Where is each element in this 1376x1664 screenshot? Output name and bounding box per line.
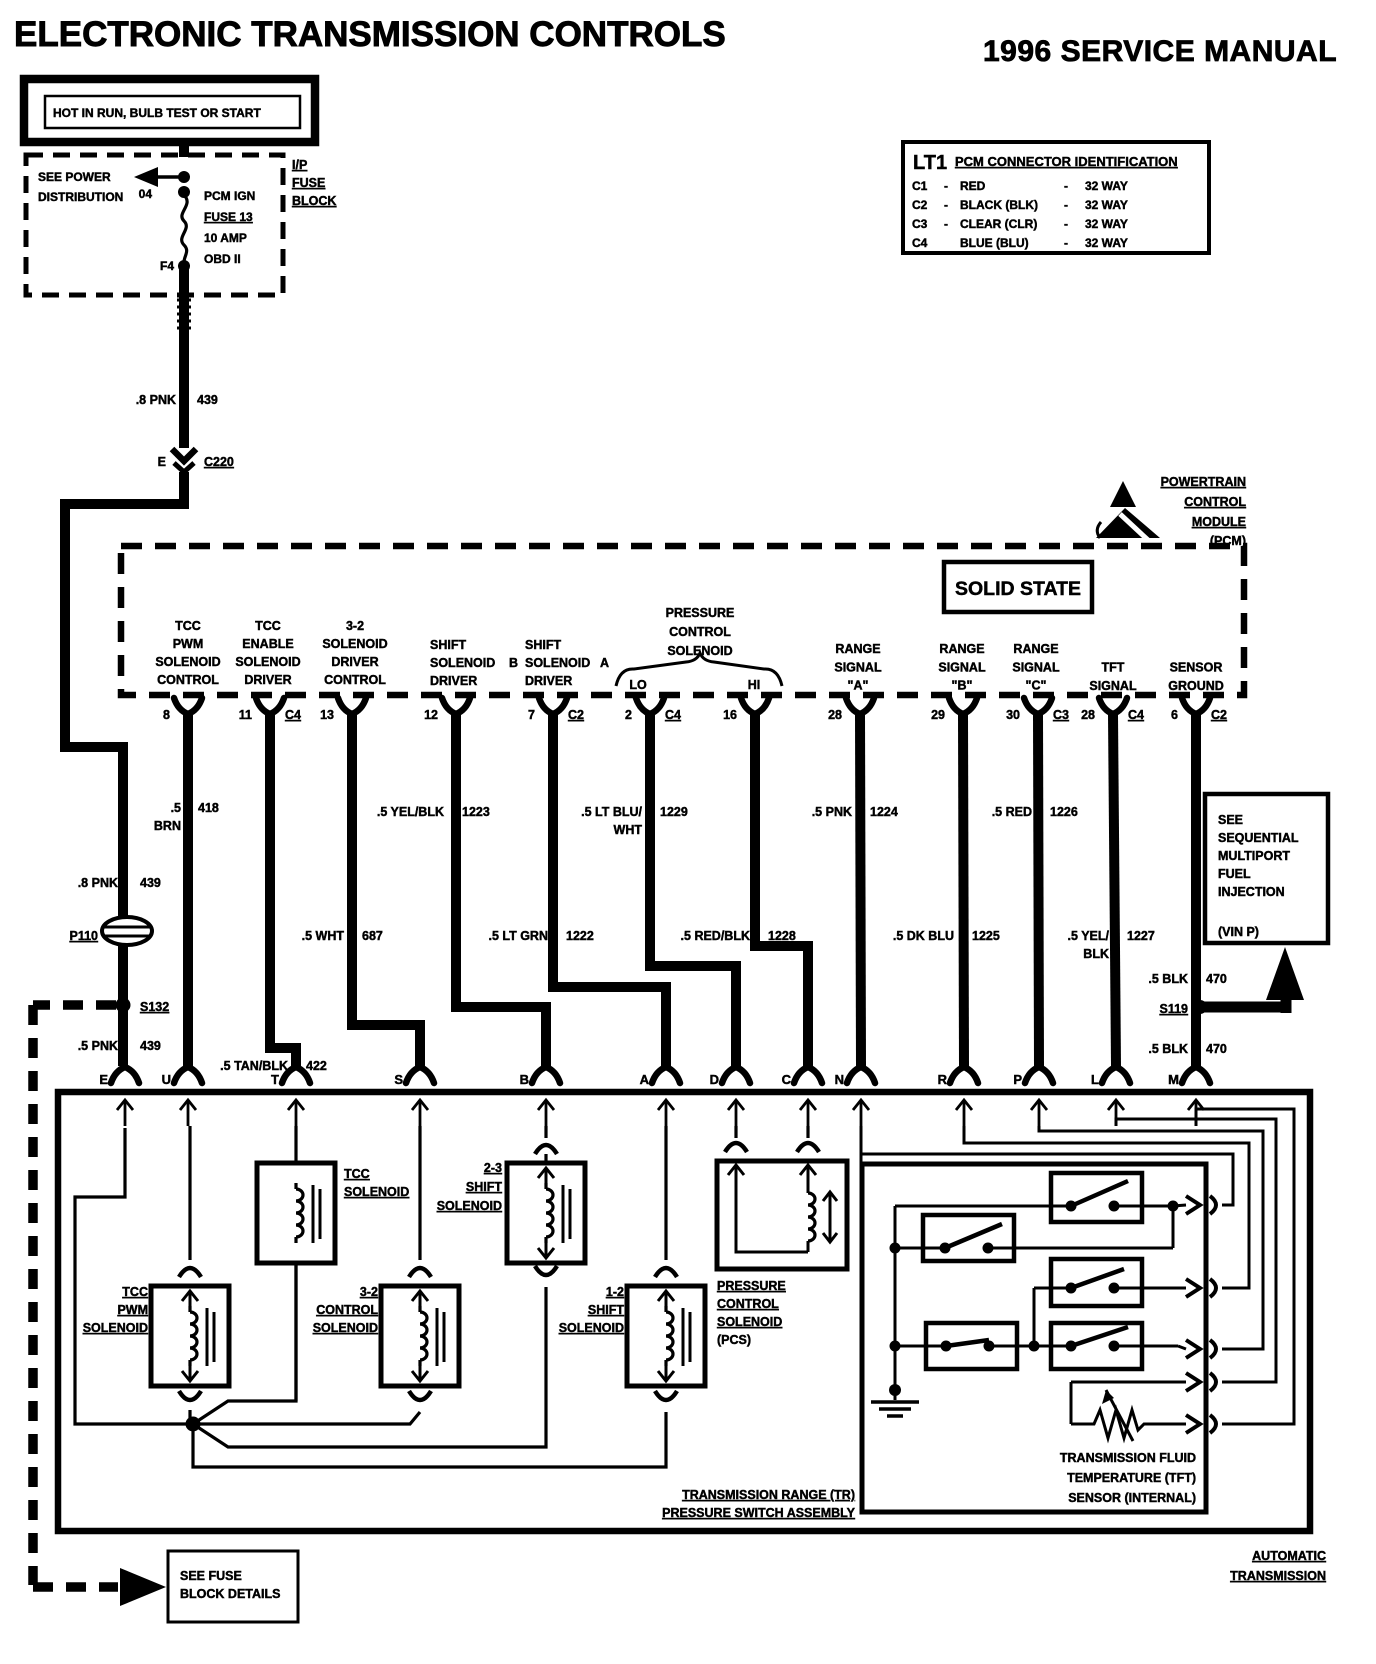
- svg-text:BRN: BRN: [154, 819, 181, 833]
- svg-text:.8 PNK: .8 PNK: [78, 876, 118, 890]
- svg-text:"A": "A": [848, 679, 869, 693]
- svg-text:1224: 1224: [870, 805, 898, 819]
- svg-text:.5 PNK: .5 PNK: [78, 1039, 118, 1053]
- svg-text:13: 13: [320, 708, 334, 722]
- svg-text:29: 29: [931, 708, 945, 722]
- svg-text:TCC: TCC: [344, 1167, 370, 1181]
- svg-text:C4: C4: [912, 236, 928, 250]
- svg-text:RANGE: RANGE: [1013, 642, 1058, 656]
- svg-text:FUSE 13: FUSE 13: [204, 210, 253, 224]
- svg-text:422: 422: [306, 1059, 327, 1073]
- svg-text:SOLENOID: SOLENOID: [155, 655, 220, 669]
- svg-text:439: 439: [140, 1039, 161, 1053]
- svg-text:SIGNAL: SIGNAL: [938, 660, 986, 674]
- svg-text:.5 RED: .5 RED: [992, 805, 1032, 819]
- svg-text:R: R: [938, 1072, 948, 1087]
- svg-text:RANGE: RANGE: [835, 642, 880, 656]
- svg-text:T: T: [271, 1072, 279, 1087]
- svg-text:.5: .5: [171, 801, 181, 815]
- svg-text:439: 439: [140, 876, 161, 890]
- svg-text:MODULE: MODULE: [1192, 515, 1246, 529]
- svg-text:.5 BLK: .5 BLK: [1148, 972, 1188, 986]
- svg-text:C2: C2: [568, 708, 584, 722]
- svg-text:TRANSMISSION: TRANSMISSION: [1230, 1569, 1326, 1583]
- svg-text:CONTROL: CONTROL: [157, 673, 219, 687]
- svg-text:SOLENOID: SOLENOID: [559, 1321, 624, 1335]
- svg-text:TCC: TCC: [122, 1285, 148, 1299]
- svg-text:SOLENOID: SOLENOID: [322, 637, 387, 651]
- svg-text:SHIFT: SHIFT: [430, 638, 466, 652]
- svg-text:32 WAY: 32 WAY: [1085, 217, 1128, 231]
- svg-text:-: -: [944, 198, 948, 212]
- svg-text:.8 PNK: .8 PNK: [136, 393, 176, 407]
- svg-text:RED: RED: [960, 179, 986, 193]
- svg-text:.5 RED/BLK: .5 RED/BLK: [681, 929, 750, 943]
- svg-text:1229: 1229: [660, 805, 688, 819]
- svg-text:"C": "C": [1026, 679, 1047, 693]
- svg-text:U: U: [162, 1072, 171, 1087]
- svg-text:S119: S119: [1159, 1002, 1188, 1016]
- svg-text:2: 2: [625, 708, 632, 722]
- svg-text:-: -: [1064, 198, 1068, 212]
- svg-text:BLK: BLK: [1083, 947, 1109, 961]
- svg-text:S: S: [394, 1072, 403, 1087]
- svg-text:SHIFT: SHIFT: [588, 1303, 624, 1317]
- svg-text:.5 WHT: .5 WHT: [302, 929, 345, 943]
- svg-text:F4: F4: [160, 259, 174, 273]
- svg-text:-: -: [1064, 179, 1068, 193]
- svg-text:DRIVER: DRIVER: [244, 673, 291, 687]
- svg-text:28: 28: [1081, 708, 1095, 722]
- svg-text:687: 687: [362, 929, 383, 943]
- svg-text:SOLENOID: SOLENOID: [525, 656, 590, 670]
- svg-text:SOLENOID: SOLENOID: [235, 655, 300, 669]
- svg-text:TEMPERATURE (TFT): TEMPERATURE (TFT): [1067, 1471, 1196, 1485]
- svg-text:PCM IGN: PCM IGN: [204, 189, 255, 203]
- svg-text:32 WAY: 32 WAY: [1085, 179, 1128, 193]
- svg-text:.5 PNK: .5 PNK: [812, 805, 852, 819]
- svg-text:1225: 1225: [972, 929, 1000, 943]
- svg-text:INJECTION: INJECTION: [1218, 885, 1285, 899]
- svg-text:418: 418: [198, 801, 219, 815]
- svg-text:.5 DK BLU: .5 DK BLU: [893, 929, 954, 943]
- svg-text:P: P: [1013, 1072, 1022, 1087]
- svg-text:OBD II: OBD II: [204, 252, 241, 266]
- svg-text:(PCM): (PCM): [1210, 534, 1246, 548]
- svg-text:SIGNAL: SIGNAL: [1012, 660, 1060, 674]
- svg-text:PCM CONNECTOR IDENTIFICATION: PCM CONNECTOR IDENTIFICATION: [955, 154, 1178, 169]
- svg-text:PRESSURE: PRESSURE: [666, 606, 735, 620]
- svg-text:.5 LT GRN: .5 LT GRN: [489, 929, 549, 943]
- svg-text:B: B: [509, 656, 518, 670]
- svg-text:FUSE: FUSE: [292, 176, 325, 190]
- svg-text:BLUE (BLU): BLUE (BLU): [960, 236, 1029, 250]
- svg-text:SOLENOID: SOLENOID: [717, 1315, 782, 1329]
- svg-text:2-3: 2-3: [484, 1161, 502, 1175]
- svg-text:04: 04: [139, 187, 153, 201]
- svg-text:BLACK (BLK): BLACK (BLK): [960, 198, 1038, 212]
- svg-text:C2: C2: [1211, 708, 1227, 722]
- svg-text:1996 SERVICE MANUAL: 1996 SERVICE MANUAL: [983, 35, 1337, 68]
- svg-text:SOLENOID: SOLENOID: [430, 656, 495, 670]
- svg-text:.5 YEL/: .5 YEL/: [1068, 929, 1110, 943]
- svg-text:12: 12: [424, 708, 438, 722]
- svg-text:-: -: [1064, 217, 1068, 231]
- svg-text:SEE: SEE: [1218, 813, 1243, 827]
- svg-text:CONTROL: CONTROL: [1184, 495, 1246, 509]
- svg-text:1227: 1227: [1127, 929, 1155, 943]
- svg-text:TCC: TCC: [175, 619, 201, 633]
- svg-text:S132: S132: [140, 1000, 169, 1014]
- svg-text:ENABLE: ENABLE: [242, 637, 293, 651]
- svg-text:D: D: [710, 1072, 719, 1087]
- svg-text:P110: P110: [69, 929, 98, 943]
- svg-text:(PCS): (PCS): [717, 1333, 751, 1347]
- svg-text:32 WAY: 32 WAY: [1085, 236, 1128, 250]
- svg-text:C4: C4: [1128, 708, 1144, 722]
- svg-text:AUTOMATIC: AUTOMATIC: [1252, 1549, 1326, 1563]
- svg-text:HOT IN RUN, BULB TEST OR START: HOT IN RUN, BULB TEST OR START: [53, 106, 261, 120]
- svg-text:B: B: [520, 1072, 529, 1087]
- svg-text:-: -: [944, 217, 948, 231]
- svg-text:SOLENOID: SOLENOID: [344, 1185, 409, 1199]
- svg-text:SOLID STATE: SOLID STATE: [955, 578, 1081, 600]
- svg-text:.5 TAN/BLK: .5 TAN/BLK: [220, 1059, 288, 1073]
- svg-text:FUEL: FUEL: [1218, 867, 1251, 881]
- svg-text:"B": "B": [952, 679, 973, 693]
- svg-text:CONTROL: CONTROL: [717, 1297, 779, 1311]
- svg-text:8: 8: [163, 708, 170, 722]
- svg-text:16: 16: [723, 708, 737, 722]
- svg-text:PWM: PWM: [117, 1303, 148, 1317]
- svg-text:CONTROL: CONTROL: [669, 625, 731, 639]
- svg-text:1-2: 1-2: [606, 1285, 624, 1299]
- svg-text:C2: C2: [912, 198, 928, 212]
- svg-text:SIGNAL: SIGNAL: [1089, 679, 1137, 693]
- svg-text:LT1: LT1: [913, 152, 947, 174]
- svg-text:C: C: [782, 1072, 792, 1087]
- svg-text:10 AMP: 10 AMP: [204, 231, 247, 245]
- svg-text:SIGNAL: SIGNAL: [834, 660, 882, 674]
- svg-text:MULTIPORT: MULTIPORT: [1218, 849, 1290, 863]
- svg-text:POWERTRAIN: POWERTRAIN: [1161, 475, 1246, 489]
- svg-text:SHIFT: SHIFT: [525, 638, 561, 652]
- svg-text:I/P: I/P: [292, 158, 307, 172]
- svg-text:LO: LO: [629, 678, 647, 692]
- svg-text:SEE FUSE: SEE FUSE: [180, 1569, 242, 1583]
- svg-text:C4: C4: [665, 708, 681, 722]
- svg-text:1222: 1222: [566, 929, 594, 943]
- svg-text:DISTRIBUTION: DISTRIBUTION: [38, 190, 123, 204]
- svg-text:SEQUENTIAL: SEQUENTIAL: [1218, 831, 1299, 845]
- svg-text:L: L: [1091, 1072, 1099, 1087]
- svg-text:32 WAY: 32 WAY: [1085, 198, 1128, 212]
- svg-text:DRIVER: DRIVER: [430, 674, 477, 688]
- svg-text:SOLENOID: SOLENOID: [313, 1321, 378, 1335]
- svg-text:.5 LT BLU/: .5 LT BLU/: [581, 805, 642, 819]
- svg-text:439: 439: [197, 393, 218, 407]
- svg-text:E: E: [99, 1072, 108, 1087]
- svg-text:(VIN P): (VIN P): [1218, 925, 1259, 939]
- svg-text:C3: C3: [912, 217, 928, 231]
- svg-text:SENSOR: SENSOR: [1170, 661, 1223, 675]
- svg-text:30: 30: [1006, 708, 1020, 722]
- svg-text:A: A: [640, 1072, 650, 1087]
- svg-text:GROUND: GROUND: [1168, 679, 1224, 693]
- svg-text:DRIVER: DRIVER: [525, 674, 572, 688]
- svg-text:.5 YEL/BLK: .5 YEL/BLK: [377, 805, 444, 819]
- svg-text:CONTROL: CONTROL: [324, 673, 386, 687]
- svg-text:HI: HI: [748, 678, 761, 692]
- svg-text:3-2: 3-2: [346, 619, 364, 633]
- svg-text:ELECTRONIC TRANSMISSION CONTRO: ELECTRONIC TRANSMISSION CONTROLS: [14, 15, 726, 54]
- svg-text:PWM: PWM: [173, 637, 204, 651]
- svg-text:PRESSURE: PRESSURE: [717, 1279, 786, 1293]
- svg-text:BLOCK: BLOCK: [292, 194, 336, 208]
- svg-text:C1: C1: [912, 179, 928, 193]
- svg-text:DRIVER: DRIVER: [331, 655, 378, 669]
- svg-text:BLOCK DETAILS: BLOCK DETAILS: [180, 1587, 280, 1601]
- svg-text:11: 11: [239, 708, 252, 722]
- svg-text:C3: C3: [1053, 708, 1069, 722]
- svg-text:CONTROL: CONTROL: [316, 1303, 378, 1317]
- svg-text:6: 6: [1171, 708, 1178, 722]
- svg-text:1226: 1226: [1050, 805, 1078, 819]
- svg-text:7: 7: [528, 708, 535, 722]
- svg-text:C220: C220: [204, 455, 234, 469]
- svg-text:SEE POWER: SEE POWER: [38, 170, 111, 184]
- svg-text:28: 28: [828, 708, 842, 722]
- svg-text:WHT: WHT: [614, 823, 643, 837]
- svg-text:SHIFT: SHIFT: [466, 1180, 502, 1194]
- svg-text:SENSOR (INTERNAL): SENSOR (INTERNAL): [1068, 1491, 1196, 1505]
- svg-text:SOLENOID: SOLENOID: [83, 1321, 148, 1335]
- svg-text:SOLENOID: SOLENOID: [437, 1199, 502, 1213]
- svg-text:1223: 1223: [462, 805, 490, 819]
- svg-text:A: A: [600, 656, 609, 670]
- svg-text:3-2: 3-2: [360, 1285, 378, 1299]
- svg-text:470: 470: [1206, 972, 1227, 986]
- svg-text:RANGE: RANGE: [939, 642, 984, 656]
- svg-text:-: -: [944, 179, 948, 193]
- svg-text:C4: C4: [285, 708, 301, 722]
- svg-text:TRANSMISSION RANGE (TR): TRANSMISSION RANGE (TR): [682, 1488, 855, 1502]
- svg-text:1228: 1228: [768, 929, 796, 943]
- svg-text:CLEAR (CLR): CLEAR (CLR): [960, 217, 1037, 231]
- svg-text:E: E: [158, 455, 166, 469]
- svg-text:-: -: [1064, 236, 1068, 250]
- svg-text:TFT: TFT: [1102, 661, 1125, 675]
- svg-text:TRANSMISSION FLUID: TRANSMISSION FLUID: [1060, 1451, 1196, 1465]
- svg-text:M: M: [1168, 1072, 1179, 1087]
- svg-text:PRESSURE SWITCH ASSEMBLY: PRESSURE SWITCH ASSEMBLY: [662, 1506, 856, 1520]
- svg-text:TCC: TCC: [255, 619, 281, 633]
- svg-text:.5 BLK: .5 BLK: [1148, 1042, 1188, 1056]
- svg-text:N: N: [835, 1072, 844, 1087]
- svg-text:470: 470: [1206, 1042, 1227, 1056]
